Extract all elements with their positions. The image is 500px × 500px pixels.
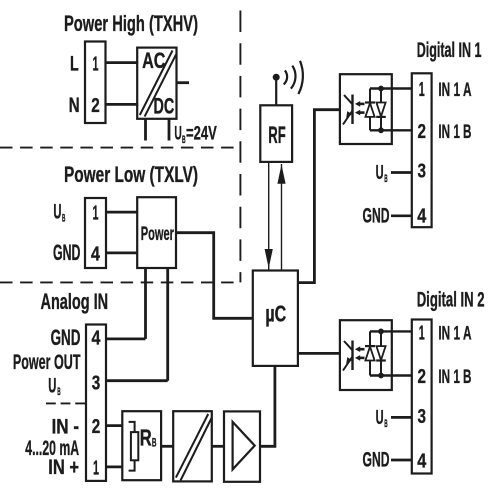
wire Power output to uC	[176, 233, 253, 319]
svg-text:B: B	[152, 436, 157, 450]
wire GND(4) to Power	[106, 251, 137, 254]
svg-text:GND: GND	[363, 204, 390, 227]
svg-text:B: B	[384, 418, 387, 430]
svg-text:Analog IN: Analog IN	[41, 289, 109, 314]
microcontroller U5	[253, 271, 298, 366]
svg-text:Power: Power	[141, 224, 175, 245]
wire pin1 to RB	[106, 465, 122, 468]
svg-text:GND: GND	[363, 449, 390, 472]
svg-text:4: 4	[417, 449, 426, 472]
burden resistor block RB	[122, 411, 161, 480]
light arrows	[358, 348, 365, 351]
wire AC/DC down stub right	[168, 119, 171, 141]
svg-text:IN -: IN -	[52, 415, 80, 438]
svg-text:N: N	[69, 94, 80, 117]
wire pin3 to Power stub	[106, 379, 168, 382]
RF module U6	[260, 105, 292, 162]
svg-text:Digital IN 1: Digital IN 1	[417, 39, 482, 62]
wire uC to optocoupler 2	[298, 352, 340, 355]
svg-text:L: L	[70, 52, 79, 75]
wire Power down to Analog GND(4)	[144, 268, 147, 339]
junction node top	[378, 329, 384, 335]
svg-text:Power High (TXHV): Power High (TXHV)	[64, 11, 198, 36]
AC/DC converter U1	[137, 48, 176, 119]
wire N(2) to AC/DC	[106, 103, 138, 106]
power supply block U2	[137, 197, 176, 268]
terminal block X3 (Analog IN)	[86, 325, 106, 481]
dashed separator horizontal 1	[0, 147, 240, 149]
wire GND to pin4	[391, 214, 412, 217]
svg-text:1: 1	[93, 202, 99, 225]
wire isolator to amplifier	[212, 445, 224, 448]
svg-text:B: B	[57, 386, 60, 398]
svg-text:2: 2	[417, 120, 426, 143]
dashed separator vertical	[239, 11, 241, 283]
junction node bottom	[378, 127, 384, 133]
wire top rail to pin1	[370, 330, 412, 332]
svg-text:AC: AC	[142, 48, 165, 73]
terminal block X1 (Power High)	[85, 42, 106, 124]
wire Power down to Analog UB(3)	[166, 268, 169, 381]
dashed separator horizontal 2	[0, 281, 240, 283]
svg-text:µC: µC	[265, 300, 286, 326]
svg-text:R: R	[140, 425, 152, 451]
svg-text:U: U	[376, 162, 384, 184]
wire UB(1) to Power	[106, 211, 137, 214]
svg-text:DC: DC	[154, 94, 175, 119]
junction node top	[378, 86, 384, 92]
svg-text:GND: GND	[51, 325, 81, 350]
svg-text:1: 1	[419, 322, 425, 345]
wire UB to pin3	[391, 416, 412, 419]
svg-text:IN 1 B: IN 1 B	[438, 366, 471, 388]
antenna wave arcs	[284, 70, 287, 84]
svg-text:B: B	[384, 173, 387, 185]
wire AC/DC down stub left	[144, 119, 147, 141]
svg-text:1: 1	[419, 78, 425, 101]
svg-text:Digital IN 2: Digital IN 2	[417, 288, 485, 311]
svg-text:3: 3	[92, 371, 101, 394]
wire UB to pin3	[391, 171, 412, 174]
svg-text:RF: RF	[268, 122, 286, 149]
svg-text:1: 1	[93, 52, 99, 75]
arrow uC to RF	[281, 164, 283, 271]
svg-text:3: 3	[417, 405, 426, 428]
svg-text:U: U	[376, 407, 384, 429]
terminal block X5 (Digital IN 2)	[412, 320, 432, 474]
phototransistor Q2	[351, 341, 353, 371]
amplifier block U4	[224, 411, 260, 481]
LED D1 (up)	[369, 89, 371, 103]
antenna	[275, 81, 277, 106]
svg-text:4: 4	[92, 326, 101, 349]
svg-text:IN +: IN +	[48, 456, 79, 479]
arrow RF to uC	[268, 162, 270, 271]
svg-text:=24V: =24V	[186, 123, 217, 145]
wire GND to pin4	[391, 459, 412, 462]
wire RB to isolator	[161, 445, 173, 448]
light arrows	[358, 103, 365, 106]
svg-text:1: 1	[93, 456, 99, 479]
svg-text:2: 2	[91, 94, 100, 117]
svg-text:3: 3	[417, 160, 426, 183]
svg-text:Power Low (TXLV): Power Low (TXLV)	[64, 162, 198, 187]
svg-text:B: B	[62, 212, 65, 224]
svg-text:IN 1 A: IN 1 A	[438, 323, 471, 345]
wire AC/DC output stub	[177, 81, 190, 84]
wire amplifier to uC	[260, 366, 275, 446]
junction node bottom	[378, 373, 384, 379]
dashed separator small	[46, 402, 86, 404]
terminal block X4 (Digital IN 1)	[412, 73, 432, 227]
svg-text:2: 2	[417, 365, 426, 388]
svg-text:U: U	[174, 123, 181, 145]
svg-text:U: U	[48, 374, 56, 397]
svg-text:U: U	[53, 201, 61, 224]
svg-text:IN 1 B: IN 1 B	[438, 121, 471, 143]
wire bottom rail to pin2	[370, 129, 412, 131]
resistor RB symbol	[131, 432, 138, 460]
isolation amplifier block U3	[173, 411, 212, 481]
LED D4 (down)	[380, 331, 382, 346]
svg-text:Power OUT: Power OUT	[13, 351, 81, 374]
LED D3 (up)	[369, 331, 371, 346]
optocoupler OC1	[340, 74, 392, 144]
wire uC to optocoupler 1	[298, 110, 340, 283]
phototransistor Q1	[351, 95, 353, 125]
terminal block X2 (Power Low)	[85, 198, 106, 268]
svg-text:2: 2	[92, 415, 101, 438]
wire pin2 to RB	[106, 424, 122, 427]
wire top rail to pin1	[370, 87, 412, 89]
wire bottom rail to pin2	[370, 374, 412, 376]
LED D2 (down)	[380, 89, 382, 103]
wire pin4 to Power stub	[106, 337, 146, 340]
optocoupler OC2	[340, 320, 392, 390]
svg-text:GND: GND	[53, 240, 80, 265]
wire L(1) to AC/DC	[106, 61, 138, 64]
svg-text:IN 1 A: IN 1 A	[438, 79, 471, 101]
svg-text:4: 4	[91, 242, 100, 265]
svg-text:4: 4	[417, 204, 426, 227]
